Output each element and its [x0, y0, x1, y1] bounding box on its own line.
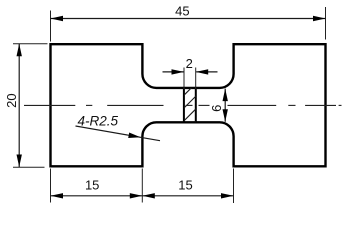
dimension 15 right line — [142, 195, 233, 197]
dimension 6 line — [224, 89, 226, 122]
dimension 45 extension lines — [51, 7, 326, 42]
svg-text:15: 15 — [178, 178, 192, 193]
svg-text:4-R2.5: 4-R2.5 — [78, 113, 119, 128]
dimension 45 arrows — [51, 16, 326, 21]
dimension 20 line — [18, 44, 20, 167]
svg-text:20: 20 — [4, 93, 19, 107]
svg-text:2: 2 — [186, 56, 193, 71]
centerline — [24, 104, 342, 106]
dimension 45 line — [51, 18, 326, 20]
dimension 2 extension lines — [184, 68, 196, 90]
dimension 15 left arrows — [51, 193, 143, 198]
radius callout leader — [76, 126, 161, 141]
section hatch — [184, 82, 197, 133]
dimension 15 left extension lines — [51, 169, 234, 204]
dimension 20 extension lines — [13, 44, 48, 168]
svg-text:45: 45 — [175, 4, 189, 19]
svg-text:15: 15 — [85, 178, 99, 193]
dimension 2 leader lines — [163, 71, 218, 73]
dimension 15 left line — [51, 195, 143, 197]
dimension 20 arrows — [17, 44, 22, 167]
dimension 15 right arrows — [142, 193, 233, 198]
dimension 2 arrows — [172, 69, 209, 74]
revolved section outline — [184, 87, 196, 123]
specimen outline — [51, 44, 326, 166]
svg-text:6: 6 — [209, 105, 224, 112]
dimension 6 arrows — [223, 89, 228, 122]
